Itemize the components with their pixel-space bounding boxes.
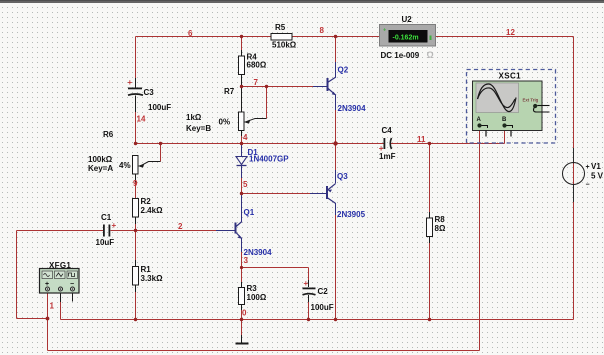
wire R3 top lead — [241, 268, 243, 288]
svg-text:2.4kΩ: 2.4kΩ — [141, 206, 164, 215]
wire Q1 emitter lead (net 3) — [241, 239, 243, 268]
node 4 — [243, 133, 248, 142]
svg-text:+: + — [383, 28, 386, 34]
wire node 2 to R1 top — [135, 231, 137, 267]
resistor R3 — [239, 284, 267, 305]
svg-text:4: 4 — [243, 133, 248, 142]
svg-text:−: − — [586, 182, 590, 189]
wire left riser to C3 top — [135, 37, 137, 88]
svg-text:+: + — [586, 164, 590, 171]
svg-text:B: B — [502, 117, 507, 123]
wire node 2 horizontal (C1 to Q1 base) — [111, 230, 217, 232]
svg-text:R5: R5 — [275, 23, 286, 32]
svg-text:1: 1 — [50, 302, 55, 311]
svg-text:6: 6 — [188, 29, 193, 38]
svg-text:DC 1e-009: DC 1e-009 — [381, 51, 420, 60]
svg-text:100uF: 100uF — [148, 103, 171, 112]
svg-text:Q2: Q2 — [338, 66, 349, 75]
svg-text:8Ω: 8Ω — [435, 224, 446, 233]
svg-text:R6: R6 — [103, 130, 114, 139]
wire ground rail (net 0) — [61, 319, 574, 321]
capacitor C4 — [379, 126, 396, 161]
junction node 4 / D1 — [240, 142, 243, 145]
svg-text:680Ω: 680Ω — [247, 61, 267, 70]
wire Q2 base lead — [313, 86, 328, 88]
resistor R2 — [133, 197, 164, 217]
wire C3 bottom lead to R6 — [135, 96, 137, 144]
node 0 — [242, 309, 247, 318]
wire XFG1 common drop — [60, 293, 62, 320]
wire ground drop — [241, 320, 243, 343]
svg-text:+: + — [112, 221, 117, 230]
ground — [236, 343, 249, 345]
node 2 — [178, 222, 183, 231]
capacitor C1 — [96, 213, 117, 247]
svg-text:C1: C1 — [101, 213, 112, 222]
svg-text:510kΩ: 510kΩ — [272, 41, 297, 50]
resistor R1 — [133, 265, 164, 285]
wire XFG1 plus terminal drop (net 1) — [47, 293, 49, 351]
resistor R4 — [239, 53, 267, 75]
svg-text:R3: R3 — [247, 284, 258, 293]
wire Q2 emitter lead — [335, 95, 337, 144]
wire Q2 collector lead — [335, 37, 337, 78]
wire C2 bottom lead — [308, 295, 310, 320]
svg-text:Key=B: Key=B — [186, 124, 211, 133]
wire node 7 horizontal to Q2 base — [242, 86, 314, 88]
svg-text:8: 8 — [320, 26, 325, 35]
junction Q3 collector ground — [334, 318, 337, 321]
svg-text:100kΩ: 100kΩ — [88, 155, 113, 164]
wire R8 bottom lead — [429, 237, 431, 320]
svg-text:2N3904: 2N3904 — [338, 104, 367, 113]
node 1 — [50, 302, 55, 311]
svg-text:1mF: 1mF — [379, 152, 396, 161]
svg-text:U2: U2 — [402, 15, 413, 24]
capacitor C2 — [303, 279, 334, 312]
wire Q3 emitter lead — [335, 144, 337, 184]
svg-text:R2: R2 — [141, 197, 152, 206]
svg-text:0%: 0% — [219, 118, 231, 127]
svg-text:2: 2 — [178, 222, 183, 231]
wire C2 top lead — [308, 268, 310, 288]
junction R1 bottom ground — [134, 318, 137, 321]
wire XFG1 minus stub — [72, 293, 74, 302]
voltage source V1 — [563, 148, 604, 202]
wire R1 bottom to ground rail — [135, 285, 137, 320]
node 3 — [244, 256, 249, 265]
junction R7 wiper node 7 — [265, 85, 268, 88]
wire top rail left segment (net 6/8) — [136, 36, 380, 38]
svg-text:14: 14 — [137, 115, 146, 124]
svg-text:R7: R7 — [224, 87, 235, 96]
wire top rail right segment (net 12) — [436, 36, 574, 38]
node 6 — [188, 29, 193, 38]
wire R2 bottom lead to node 2 — [135, 217, 137, 231]
wire R6 wiper riser — [160, 144, 162, 162]
node 8 — [320, 26, 325, 35]
multimeter U2 — [380, 15, 436, 60]
wire output node horizontal (net 14 to C4 left) — [136, 143, 385, 145]
svg-text:C3: C3 — [144, 88, 155, 97]
wire Q3 collector lead — [335, 203, 337, 320]
function generator XFG1 — [40, 261, 80, 293]
wire D1 top lead — [241, 144, 243, 157]
svg-text:+: + — [304, 279, 309, 288]
svg-text:1N4007GP: 1N4007GP — [249, 155, 289, 164]
node 14 — [137, 115, 146, 124]
svg-text:Ω: Ω — [427, 50, 434, 60]
svg-text:Key=A: Key=A — [88, 164, 113, 173]
svg-text:5: 5 — [243, 180, 248, 189]
svg-text:-0.162m: -0.162m — [393, 35, 419, 42]
svg-text:+: + — [128, 78, 133, 87]
wire C4 right to scope B corner (net 11) — [391, 143, 505, 145]
node 7 — [254, 78, 259, 87]
junction push-pull output — [333, 141, 337, 145]
wire R3 bottom lead (net 0) — [241, 305, 243, 320]
wire R7 top lead — [241, 87, 243, 113]
transistor Q3 — [327, 172, 366, 219]
junction emitter node 3 — [240, 266, 243, 269]
junction node 1 — [46, 317, 50, 321]
wire right vertical V1 branch — [573, 37, 575, 320]
wire R6 bottom lead (net 9) — [135, 174, 137, 199]
transistor Q1 — [236, 208, 273, 257]
svg-text:11: 11 — [417, 135, 426, 144]
svg-text:R1: R1 — [141, 265, 152, 274]
svg-text:Q3: Q3 — [337, 172, 348, 181]
wire Q1 collector lead — [241, 194, 243, 222]
junction C2 bottom ground — [307, 318, 310, 321]
node 5 — [243, 180, 248, 189]
wire R7 wiper riser — [266, 87, 268, 119]
junction R4 top rail — [240, 35, 243, 38]
oscilloscope XSC1 — [467, 70, 556, 144]
svg-text:12: 12 — [506, 28, 515, 37]
resistor R8 — [427, 215, 446, 237]
wire R4 bottom lead to node 7 — [241, 75, 243, 87]
wire R7 bottom lead (net 4) — [241, 131, 243, 144]
wire left riser down — [16, 231, 18, 319]
diode D1 — [236, 148, 289, 166]
junction R6 top net 14 — [134, 142, 137, 145]
svg-text:0: 0 — [242, 309, 247, 318]
node 12 — [506, 28, 515, 37]
svg-text:V1: V1 — [591, 162, 601, 171]
junction node 2 — [134, 229, 137, 232]
svg-text:XSC1: XSC1 — [499, 72, 522, 81]
junction R6 wiper — [159, 142, 162, 145]
wire node 5 horizontal to Q3 base — [242, 193, 328, 195]
wire R4 top lead — [241, 37, 243, 57]
wire C1 left to left riser — [17, 230, 104, 232]
svg-text:2N3905: 2N3905 — [337, 210, 366, 219]
resistor R5 — [271, 23, 297, 50]
svg-text:10uF: 10uF — [96, 238, 115, 247]
svg-text:C4: C4 — [382, 126, 393, 135]
wire left riser to node 1 — [17, 318, 48, 320]
svg-text:9: 9 — [133, 179, 138, 188]
potentiometer R7 — [186, 87, 267, 133]
potentiometer R6 — [88, 130, 161, 174]
node 11 — [417, 135, 426, 144]
wire R8 top lead (net 11) — [429, 144, 431, 219]
svg-text:100uF: 100uF — [311, 303, 334, 312]
svg-text:7: 7 — [254, 78, 259, 87]
svg-text:1kΩ: 1kΩ — [186, 113, 202, 122]
wire bottom rail to scope A — [48, 350, 480, 352]
capacitor C3 — [128, 78, 172, 112]
junction R3 ground — [240, 318, 243, 321]
svg-text:R8: R8 — [435, 215, 446, 224]
wire scope B vertical — [504, 128, 506, 144]
junction node 5 — [240, 192, 243, 195]
wire scope A vertical — [479, 128, 481, 351]
junction node 7 — [240, 85, 243, 88]
node 9 — [133, 179, 138, 188]
junction net 11 R8 — [428, 142, 431, 145]
svg-text:Ext Trig: Ext Trig — [523, 98, 539, 103]
junction Q2 collector top rail — [334, 35, 337, 38]
window top edge bar — [0, 0, 604, 3]
svg-text:3.3kΩ: 3.3kΩ — [141, 274, 164, 283]
svg-text:Q1: Q1 — [244, 208, 255, 217]
svg-text:5 V: 5 V — [591, 172, 604, 181]
svg-text:A: A — [477, 117, 482, 123]
wire Q1 base lead — [216, 230, 236, 232]
junction R8 bottom ground — [428, 318, 431, 321]
svg-text:C2: C2 — [318, 287, 329, 296]
svg-text:4%: 4% — [119, 161, 131, 170]
svg-text:100Ω: 100Ω — [247, 293, 267, 302]
wire D1 bottom lead (net 5) — [241, 166, 243, 194]
svg-text:3: 3 — [244, 256, 249, 265]
transistor Q2 — [328, 66, 367, 114]
wire emitter node horizontal to C2 — [242, 267, 309, 269]
